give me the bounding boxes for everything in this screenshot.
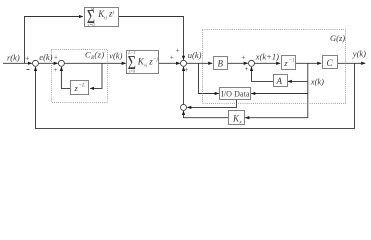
summing junction SJ4 — [249, 60, 255, 66]
svg-text:e(k): e(k) — [39, 52, 52, 62]
svg-text:M: M — [90, 7, 95, 12]
svg-text:I/O Data: I/O Data — [221, 90, 250, 99]
svg-text:CR(z): CR(z) — [85, 50, 105, 61]
wire SJ4 to z^-1 — [255, 62, 281, 64]
wire B to SJ4 — [228, 62, 248, 64]
svg-text:+: + — [25, 54, 29, 62]
content of Kv block: sum_{j=0}^{L-1} K_vj z^-j — [127, 50, 158, 73]
content of z^-L block — [74, 83, 86, 93]
content of feedforward block: sum_{j=0}^{M} K_rj z^j — [87, 5, 115, 27]
svg-text:+: + — [245, 65, 249, 73]
wire u tap down into I/O Data left — [199, 63, 219, 93]
wire SJ2 to sum Kv block — [65, 62, 126, 64]
wire A output up into SJ4 — [252, 67, 274, 81]
wire SJ3 to B (u) — [187, 62, 213, 64]
svg-text:z: z — [74, 83, 79, 93]
svg-text:G(z): G(z) — [330, 33, 345, 43]
wire z^-1 to C with x tap — [296, 62, 322, 64]
dashed box G(z) — [203, 30, 346, 104]
summing junction SJ5 — [181, 104, 187, 110]
svg-text:j=0: j=0 — [128, 68, 136, 73]
svg-text:+: + — [241, 54, 245, 62]
summing junction SJ2 — [58, 60, 64, 66]
svg-text:+: + — [170, 53, 174, 61]
svg-text:x(k+1): x(k+1) — [255, 51, 279, 61]
svg-text:+: + — [176, 46, 180, 54]
svg-text:v(k): v(k) — [109, 50, 122, 60]
block z^-1 — [282, 56, 296, 70]
summing junction SJ1 — [33, 60, 39, 66]
wire r(k) input — [3, 62, 32, 64]
block C — [323, 56, 338, 69]
svg-text:j=0: j=0 — [87, 22, 95, 27]
svg-text:−1: −1 — [289, 59, 295, 64]
svg-text:A: A — [276, 76, 283, 86]
wire feedforward block output to u junction — [119, 17, 184, 60]
block K_x — [229, 111, 245, 125]
block z^-L — [71, 81, 89, 95]
svg-text:x(k): x(k) — [310, 76, 324, 86]
wire y feedback down around to SJ1 — [36, 63, 355, 128]
svg-text:−j: −j — [153, 57, 158, 62]
wire C to output y(k) — [338, 62, 366, 64]
sign - of feedback at SJ1 — [26, 69, 29, 71]
wire SJ1 to SJ2 — [39, 62, 58, 64]
wire into A — [288, 80, 308, 82]
content of z^-1 block — [283, 58, 294, 68]
summing junction SJ3 — [181, 60, 187, 66]
svg-text:+: + — [184, 66, 188, 74]
block sum K_vj z^-j — [127, 51, 159, 74]
svg-text:+: + — [53, 66, 57, 74]
svg-text:L−1: L−1 — [127, 50, 135, 55]
svg-text:z: z — [283, 58, 288, 68]
wire x(k) vertical down to Kx — [245, 63, 307, 117]
svg-text:C: C — [327, 58, 334, 68]
wire Kv block to SJ3 — [159, 62, 180, 64]
svg-text:B: B — [218, 59, 224, 69]
wire r tap up to feedforward — [25, 17, 83, 64]
svg-text:−L: −L — [79, 84, 85, 89]
svg-text:u(k): u(k) — [188, 50, 202, 60]
wire z^-L output up into SJ2 — [61, 67, 70, 88]
wire Kx output into SJ5 — [184, 111, 229, 118]
wire x(k) into I/O Data right — [251, 93, 307, 95]
wire v tap down into z^-L — [90, 63, 102, 88]
svg-text:r(k): r(k) — [7, 52, 20, 62]
block I/O Data — [220, 88, 251, 100]
svg-text:+: + — [54, 54, 58, 62]
wire SJ5 up into SJ3 — [183, 67, 185, 104]
block feedforward sum K_rj z^j — [85, 8, 119, 27]
block A — [274, 75, 288, 87]
wire I/O Data output to SJ5 — [187, 100, 236, 108]
dashed box C_R(z) — [52, 50, 108, 103]
svg-text:y(k): y(k) — [352, 48, 366, 58]
block B — [214, 57, 228, 70]
